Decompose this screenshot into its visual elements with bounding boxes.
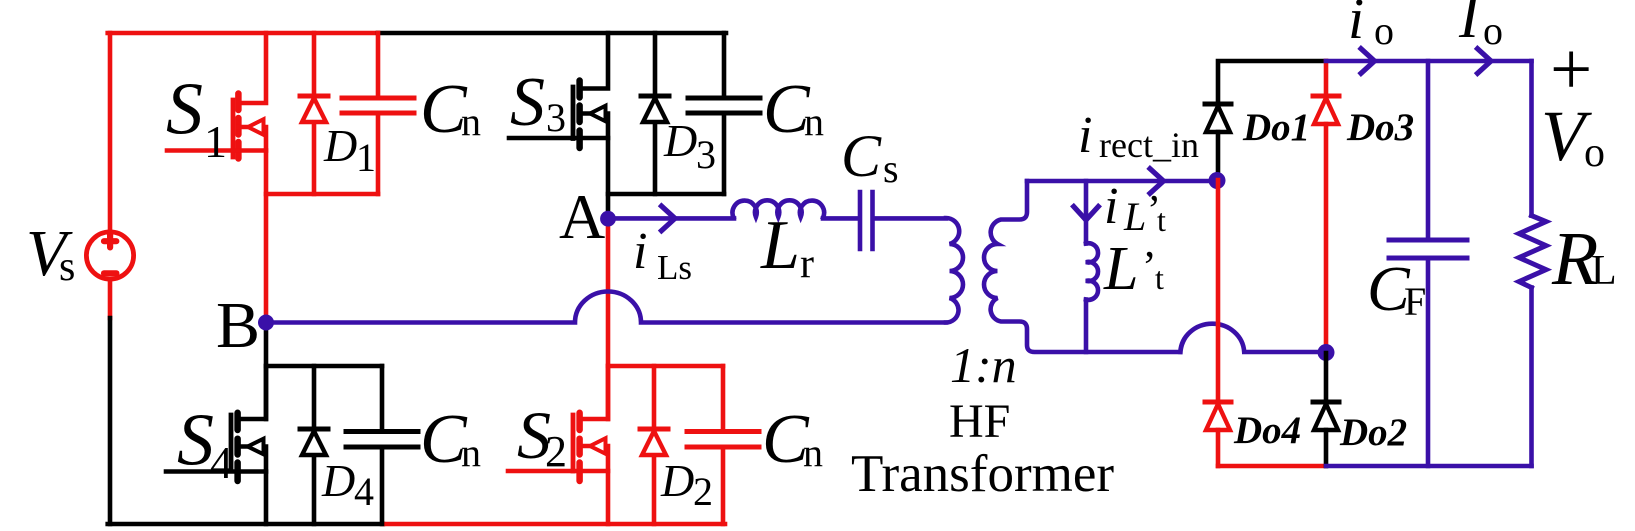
svg-text:o: o	[1483, 8, 1503, 53]
wire output bottom blue	[1326, 464, 1532, 469]
svg-text:r: r	[800, 241, 814, 287]
svg-text:n: n	[804, 99, 824, 144]
arrow iLs	[662, 206, 676, 231]
wire S4 cell top	[266, 364, 382, 369]
svg-text:Do1: Do1	[1242, 106, 1310, 149]
wire secondary top to rectifier node	[1027, 179, 1216, 184]
inductor Lr	[732, 200, 824, 217]
wire Do1 top rail black	[1218, 61, 1326, 104]
transistor Q S1	[167, 33, 266, 159]
svg-text:S: S	[166, 69, 203, 151]
capacitor Cn of S4	[346, 366, 418, 524]
wire Lr to Cs	[823, 216, 858, 221]
svg-text:o: o	[1374, 8, 1394, 53]
svg-text:2: 2	[693, 469, 713, 514]
arrow Io	[1478, 49, 1492, 74]
wire node A to Lr	[608, 216, 734, 221]
svg-text:i: i	[1348, 0, 1364, 51]
svg-text:Do3: Do3	[1346, 106, 1414, 149]
svg-text:S: S	[510, 64, 545, 141]
svg-text:D: D	[660, 455, 694, 506]
svg-text:rect_in: rect_in	[1099, 125, 1199, 165]
wire Vs bottom lead red part	[108, 280, 113, 319]
svg-text:S: S	[177, 400, 214, 482]
svg-text:D: D	[663, 115, 697, 166]
svg-text:2: 2	[545, 427, 567, 476]
capacitor CF	[1389, 61, 1467, 466]
wire Do3 top	[1324, 61, 1329, 96]
diode Do3	[1313, 96, 1339, 353]
voltage source Vs	[86, 232, 133, 279]
svg-text:i: i	[633, 223, 647, 280]
wire L't bottom	[1084, 300, 1089, 352]
svg-text:D: D	[321, 455, 355, 506]
svg-text:1:n: 1:n	[950, 337, 1017, 393]
svg-text:L: L	[1591, 248, 1617, 294]
wire transformer primary bottom to node B (with hop over A leg)	[266, 292, 946, 323]
svg-text:3: 3	[546, 95, 566, 140]
node B	[258, 315, 274, 331]
wire S2 cell top	[608, 364, 723, 369]
diode D3	[641, 33, 669, 194]
svg-text:1: 1	[204, 116, 227, 167]
arrow i_rect_in	[1150, 169, 1164, 194]
diode Do1	[1205, 104, 1231, 180]
svg-text:Transformer: Transformer	[851, 445, 1114, 503]
svg-text:s: s	[59, 244, 75, 290]
wire S2 source to bottom rail	[606, 471, 611, 524]
diode D4	[300, 366, 328, 524]
diode D1	[300, 33, 328, 194]
wire node to Do2	[1324, 353, 1329, 402]
svg-text:i: i	[1104, 178, 1118, 235]
transistor Q S2	[508, 366, 608, 481]
svg-text:s: s	[883, 146, 899, 191]
wire Vs top lead	[108, 33, 113, 233]
wire node B to S4	[264, 323, 269, 420]
diode D2	[640, 366, 668, 524]
wire L't branch top	[1084, 181, 1089, 244]
svg-text:F: F	[1404, 279, 1426, 324]
svg-text:4: 4	[354, 469, 374, 514]
svg-text:I: I	[1458, 0, 1482, 50]
svg-text:i: i	[1078, 107, 1092, 164]
svg-text:D: D	[323, 120, 357, 171]
wire output top rail blue	[1326, 59, 1532, 64]
svg-text:n: n	[803, 430, 823, 475]
diode Do2	[1313, 402, 1339, 466]
inductor L't	[1086, 243, 1098, 300]
wire secondary bottom to rectifier node 2 (with hop over Do1 leg)	[1180, 324, 1326, 352]
svg-text:C: C	[841, 123, 882, 189]
wire node A to S2	[606, 218, 611, 419]
svg-text:L: L	[1103, 235, 1138, 303]
capacitor Cn of S2	[687, 366, 759, 524]
svg-text:A: A	[559, 181, 605, 252]
svg-text:t: t	[1155, 260, 1164, 296]
node A	[600, 211, 616, 227]
transistor Q S4	[166, 366, 266, 481]
svg-text:4: 4	[210, 438, 233, 488]
capacitor Cn of S3	[688, 33, 760, 194]
svg-text:L: L	[1123, 194, 1146, 239]
wire node to Do4	[1216, 180, 1221, 402]
wire Cs to transformer primary	[875, 216, 946, 221]
wire top rail black segment	[378, 31, 726, 36]
svg-text:B: B	[216, 289, 260, 362]
svg-text:HF: HF	[949, 395, 1010, 448]
wire S1 cell bottom	[266, 192, 378, 197]
node rect_in	[1209, 172, 1226, 189]
svg-text:Do2: Do2	[1339, 411, 1407, 454]
svg-text:3: 3	[696, 132, 716, 177]
wire bottom rail red segment	[383, 522, 725, 527]
transistor Q S3	[509, 33, 608, 148]
transformer secondary winding	[984, 181, 1180, 352]
node secondary bottom	[1318, 344, 1335, 361]
diode Do4	[1205, 402, 1231, 466]
wire rectifier bottom red	[1218, 464, 1326, 469]
arrow i_L't	[1074, 207, 1099, 221]
svg-text:o: o	[1584, 130, 1605, 176]
capacitor Cs	[860, 192, 873, 249]
wire top rail red segment	[108, 31, 378, 36]
arrow io	[1361, 49, 1375, 74]
wire Vs bottom lead black part	[108, 318, 113, 524]
wire S4 source to bottom rail	[264, 472, 269, 525]
wire S3 cell bottom	[608, 192, 724, 197]
wire S1 source to node B	[264, 151, 269, 323]
transformer primary winding	[946, 218, 963, 323]
capacitor Cn of S1	[342, 33, 414, 194]
svg-text:L: L	[760, 207, 800, 284]
svg-text:t: t	[1157, 202, 1166, 238]
resistor RL	[1519, 61, 1546, 466]
wire bottom rail black segment	[108, 522, 383, 527]
svg-text:Ls: Ls	[657, 248, 692, 287]
svg-text:1: 1	[356, 135, 376, 180]
svg-text:n: n	[461, 99, 481, 144]
svg-text:n: n	[461, 430, 481, 475]
svg-text:Do4: Do4	[1233, 409, 1301, 452]
wire S3 source to node A	[606, 138, 611, 218]
